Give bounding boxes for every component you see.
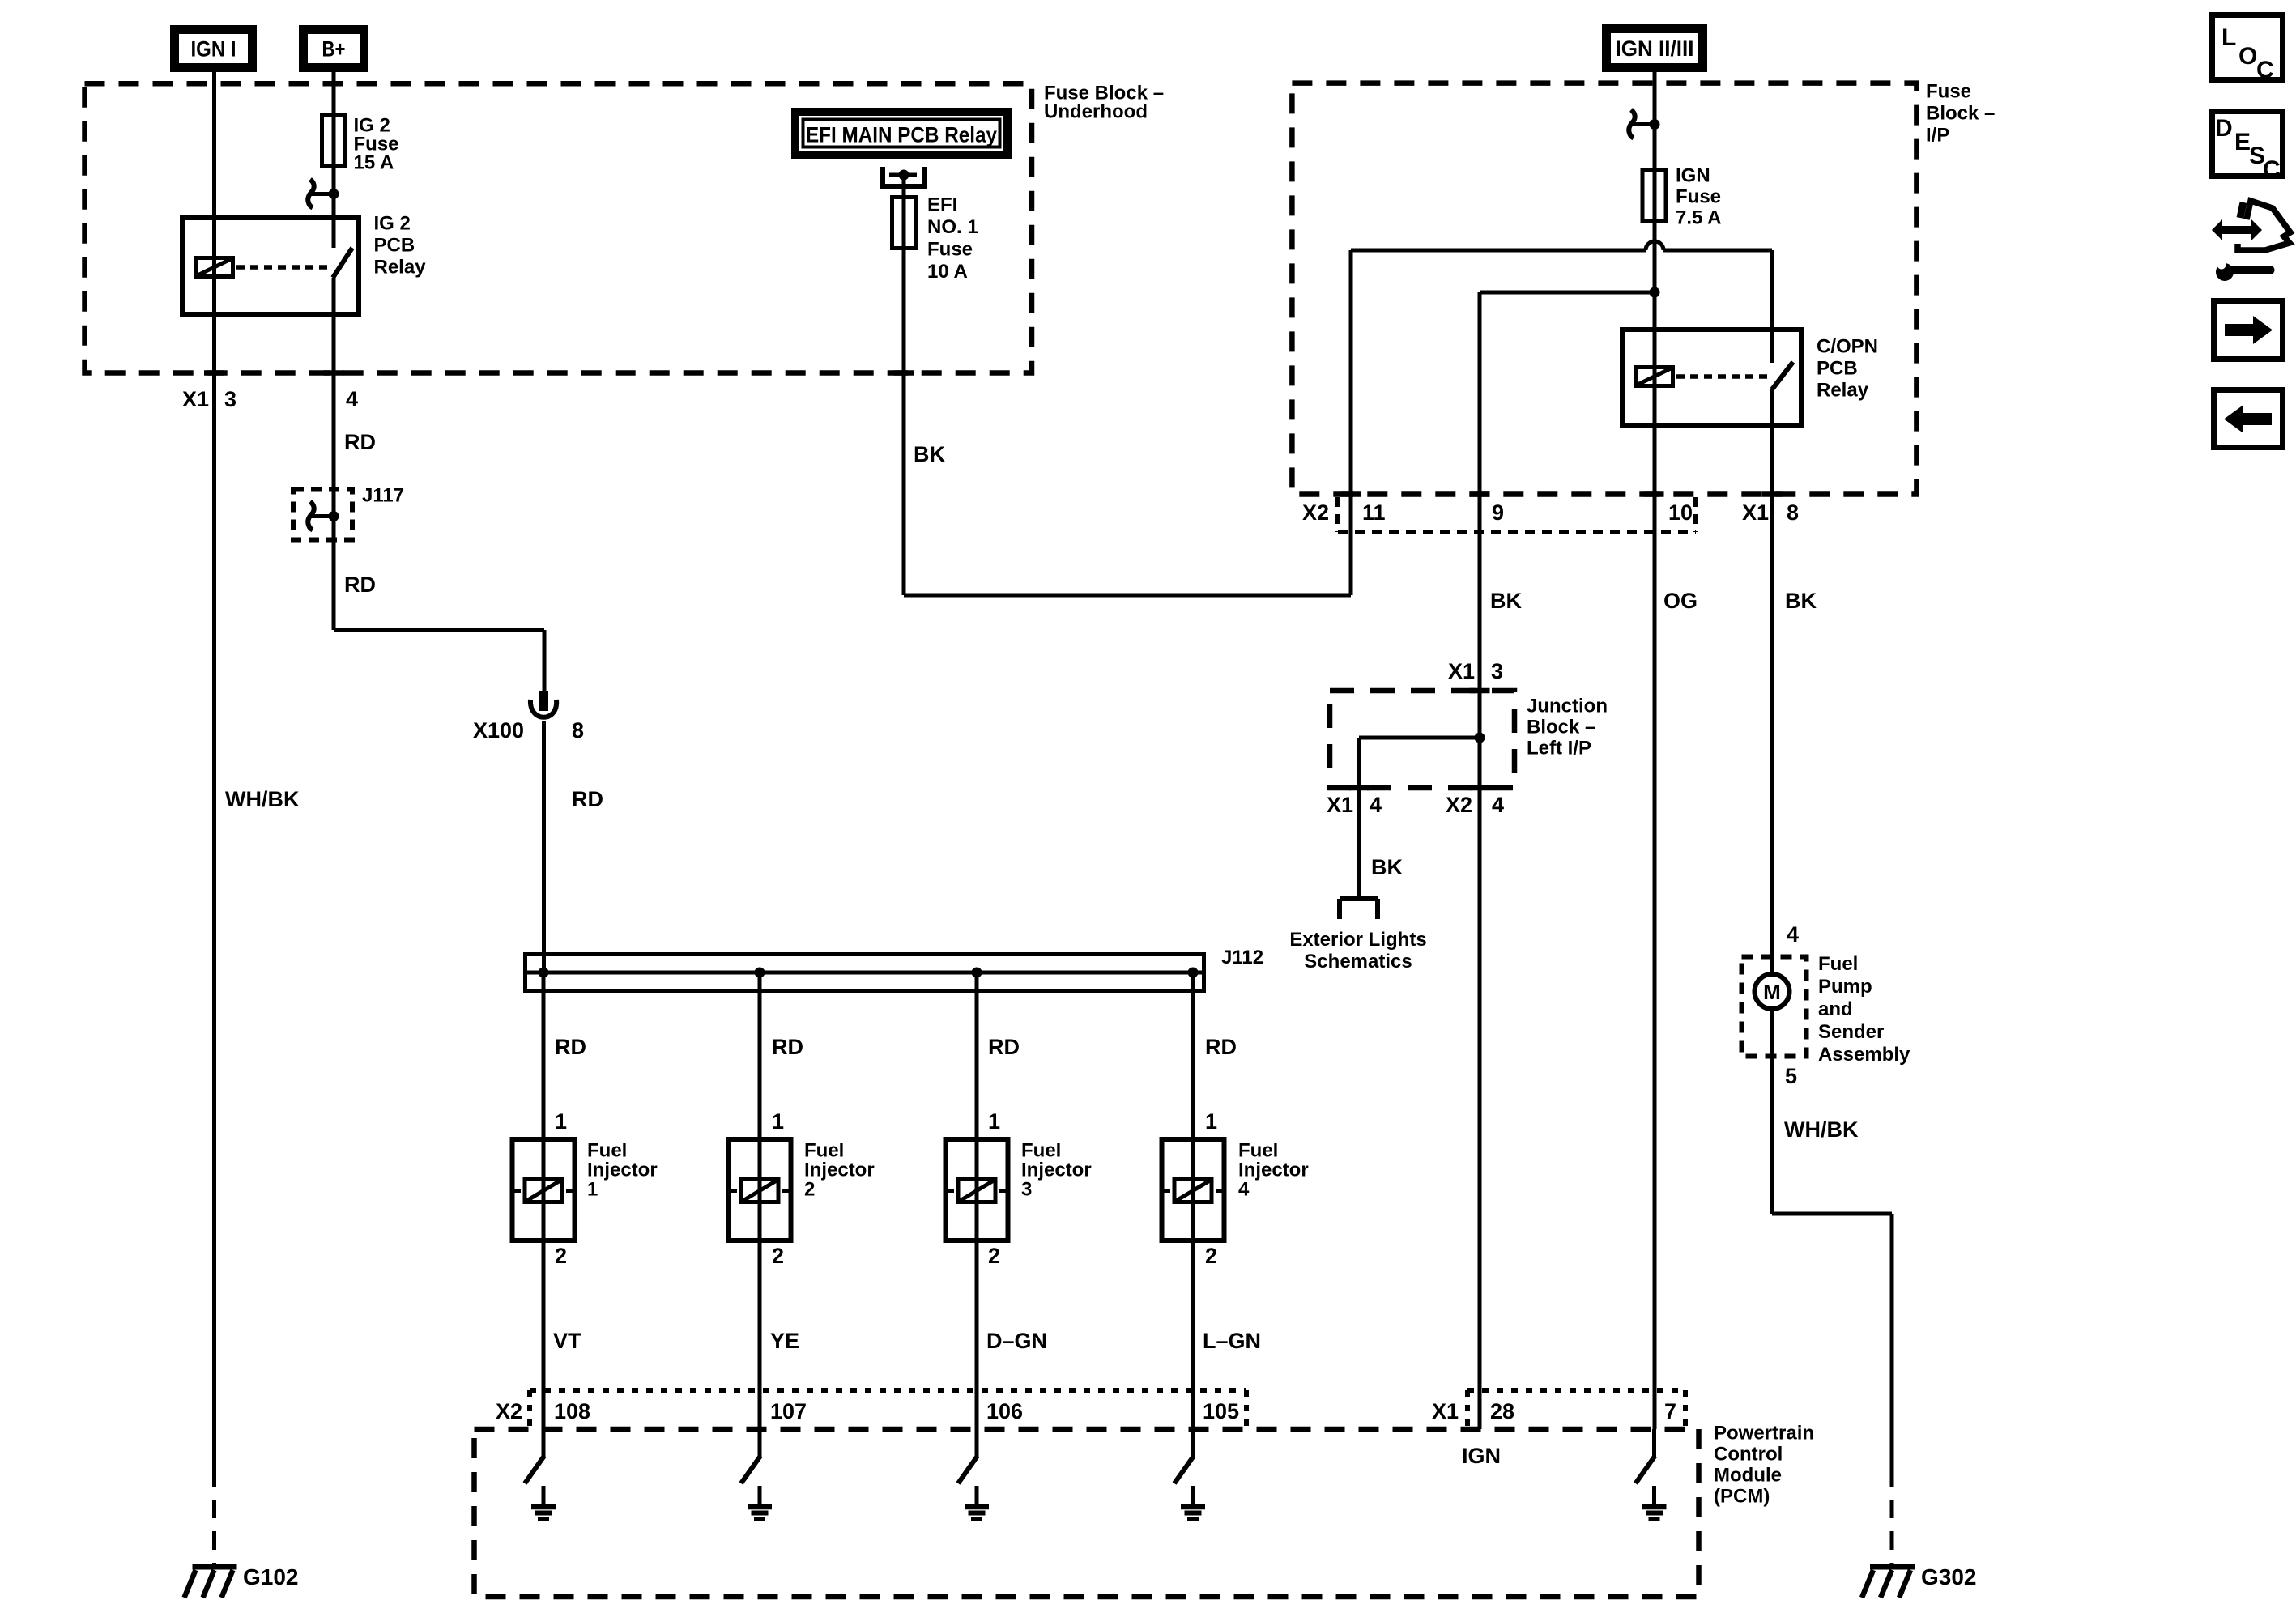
svg-text:BK: BK (914, 442, 945, 466)
svg-text:D: D (2215, 115, 2233, 142)
svg-text:G302: G302 (1921, 1564, 1977, 1589)
svg-text:Left I/P: Left I/P (1527, 738, 1591, 760)
svg-text:Schematics: Schematics (1304, 951, 1412, 972)
svg-text:EFI MAIN PCB Relay: EFI MAIN PCB Relay (806, 123, 997, 147)
svg-text:1: 1 (1205, 1109, 1217, 1134)
svg-text:Control: Control (1714, 1444, 1783, 1466)
svg-text:PCB: PCB (374, 235, 415, 257)
svg-text:L–GN: L–GN (1203, 1329, 1261, 1353)
svg-text:4: 4 (1370, 793, 1382, 817)
svg-text:X1: X1 (182, 387, 209, 411)
svg-text:2: 2 (555, 1244, 567, 1268)
svg-text:IG 2: IG 2 (374, 213, 411, 235)
svg-text:106: 106 (986, 1399, 1023, 1423)
svg-text:EFI: EFI (927, 194, 957, 216)
svg-text:X2: X2 (1446, 793, 1472, 817)
svg-text:Assembly: Assembly (1818, 1044, 1910, 1066)
svg-text:1: 1 (772, 1109, 784, 1134)
svg-text:Fuse: Fuse (927, 239, 973, 261)
svg-text:IGN: IGN (1676, 165, 1710, 187)
svg-text:G102: G102 (243, 1564, 299, 1589)
svg-text:C/OPN: C/OPN (1817, 336, 1878, 358)
svg-text:Injector: Injector (587, 1160, 658, 1181)
svg-text:Injector: Injector (1021, 1160, 1092, 1181)
svg-text:Fuel: Fuel (587, 1140, 627, 1162)
svg-text:OG: OG (1663, 589, 1698, 613)
svg-text:X1: X1 (1432, 1399, 1459, 1423)
svg-text:28: 28 (1490, 1399, 1514, 1423)
svg-text:WH/BK: WH/BK (1784, 1117, 1859, 1142)
svg-text:IGN: IGN (1462, 1444, 1501, 1468)
svg-text:11: 11 (1362, 500, 1386, 525)
svg-text:Block –: Block – (1926, 103, 1995, 125)
svg-text:Exterior Lights: Exterior Lights (1289, 929, 1426, 951)
svg-text:RD: RD (555, 1035, 586, 1059)
svg-text:Injector: Injector (1238, 1160, 1309, 1181)
svg-text:Pump: Pump (1818, 976, 1872, 998)
svg-text:J112: J112 (1221, 947, 1263, 968)
svg-text:3: 3 (224, 387, 236, 411)
svg-text:RD: RD (344, 572, 376, 597)
svg-text:Relay: Relay (374, 257, 427, 279)
svg-text:2: 2 (804, 1179, 815, 1201)
svg-text:7: 7 (1664, 1399, 1676, 1423)
svg-text:4: 4 (1787, 922, 1799, 947)
svg-text:2: 2 (1205, 1244, 1217, 1268)
svg-text:Module: Module (1714, 1465, 1782, 1487)
svg-text:108: 108 (554, 1399, 590, 1423)
svg-text:9: 9 (1492, 500, 1504, 525)
svg-text:M: M (1763, 980, 1781, 1004)
svg-text:X2: X2 (496, 1399, 522, 1423)
svg-text:1: 1 (555, 1109, 567, 1134)
svg-text:X1: X1 (1327, 793, 1353, 817)
svg-text:Injector: Injector (804, 1160, 875, 1181)
svg-text:7.5 A: 7.5 A (1676, 207, 1721, 229)
svg-text:8: 8 (572, 718, 584, 743)
svg-text:BK: BK (1785, 589, 1817, 613)
svg-text:L: L (2221, 24, 2236, 51)
svg-text:5: 5 (1785, 1064, 1797, 1088)
svg-text:YE: YE (770, 1329, 799, 1353)
svg-text:IGN I: IGN I (191, 37, 236, 62)
svg-text:15 A: 15 A (354, 152, 394, 174)
svg-text:1: 1 (988, 1109, 1000, 1134)
svg-text:X1: X1 (1742, 500, 1769, 525)
svg-text:Fuel: Fuel (1238, 1140, 1278, 1162)
svg-text:IGN II/III: IGN II/III (1616, 36, 1694, 61)
svg-text:Fuel: Fuel (804, 1140, 844, 1162)
svg-text:4: 4 (346, 387, 358, 411)
svg-text:I/P: I/P (1926, 125, 1949, 147)
svg-text:WH/BK: WH/BK (225, 787, 300, 811)
svg-text:D–GN: D–GN (986, 1329, 1047, 1353)
svg-text:8: 8 (1787, 500, 1799, 525)
svg-text:and: and (1818, 998, 1853, 1020)
svg-text:Junction: Junction (1527, 696, 1608, 717)
svg-text:RD: RD (772, 1035, 803, 1059)
svg-text:Fuel: Fuel (1818, 953, 1858, 975)
svg-text:107: 107 (770, 1399, 807, 1423)
svg-text:3: 3 (1491, 659, 1503, 683)
svg-text:X1: X1 (1448, 659, 1475, 683)
svg-text:Block –: Block – (1527, 717, 1595, 738)
svg-text:Fuse: Fuse (1676, 186, 1721, 208)
svg-text:BK: BK (1371, 855, 1403, 879)
svg-text:Relay: Relay (1817, 380, 1869, 402)
svg-text:3: 3 (1021, 1179, 1032, 1201)
svg-text:E: E (2234, 129, 2251, 155)
svg-text:RD: RD (1205, 1035, 1237, 1059)
svg-text:4: 4 (1238, 1179, 1250, 1201)
svg-text:10: 10 (1668, 500, 1693, 525)
svg-text:1: 1 (587, 1179, 598, 1201)
svg-text:105: 105 (1203, 1399, 1239, 1423)
svg-text:C: C (2256, 57, 2274, 83)
svg-text:PCB: PCB (1817, 358, 1858, 380)
svg-text:X2: X2 (1302, 500, 1329, 525)
svg-text:RD: RD (344, 430, 376, 454)
svg-text:B+: B+ (322, 37, 346, 62)
svg-text:BK: BK (1490, 589, 1522, 613)
svg-text:4: 4 (1492, 793, 1504, 817)
svg-text:Fuse: Fuse (1926, 81, 1971, 103)
svg-text:J117: J117 (362, 485, 404, 507)
svg-text:RD: RD (988, 1035, 1020, 1059)
svg-text:2: 2 (988, 1244, 1000, 1268)
svg-text:NO. 1: NO. 1 (927, 216, 978, 238)
svg-text:C: C (2263, 156, 2281, 183)
svg-text:RD: RD (572, 787, 603, 811)
svg-text:10 A: 10 A (927, 261, 968, 283)
svg-text:Powertrain: Powertrain (1714, 1423, 1814, 1445)
svg-text:X100: X100 (473, 718, 524, 743)
svg-text:VT: VT (553, 1329, 581, 1353)
svg-text:(PCM): (PCM) (1714, 1486, 1770, 1508)
svg-text:Sender: Sender (1818, 1021, 1884, 1043)
svg-text:Fuel: Fuel (1021, 1140, 1061, 1162)
svg-text:Underhood: Underhood (1044, 101, 1148, 123)
svg-text:2: 2 (772, 1244, 784, 1268)
svg-text:O: O (2238, 43, 2257, 70)
